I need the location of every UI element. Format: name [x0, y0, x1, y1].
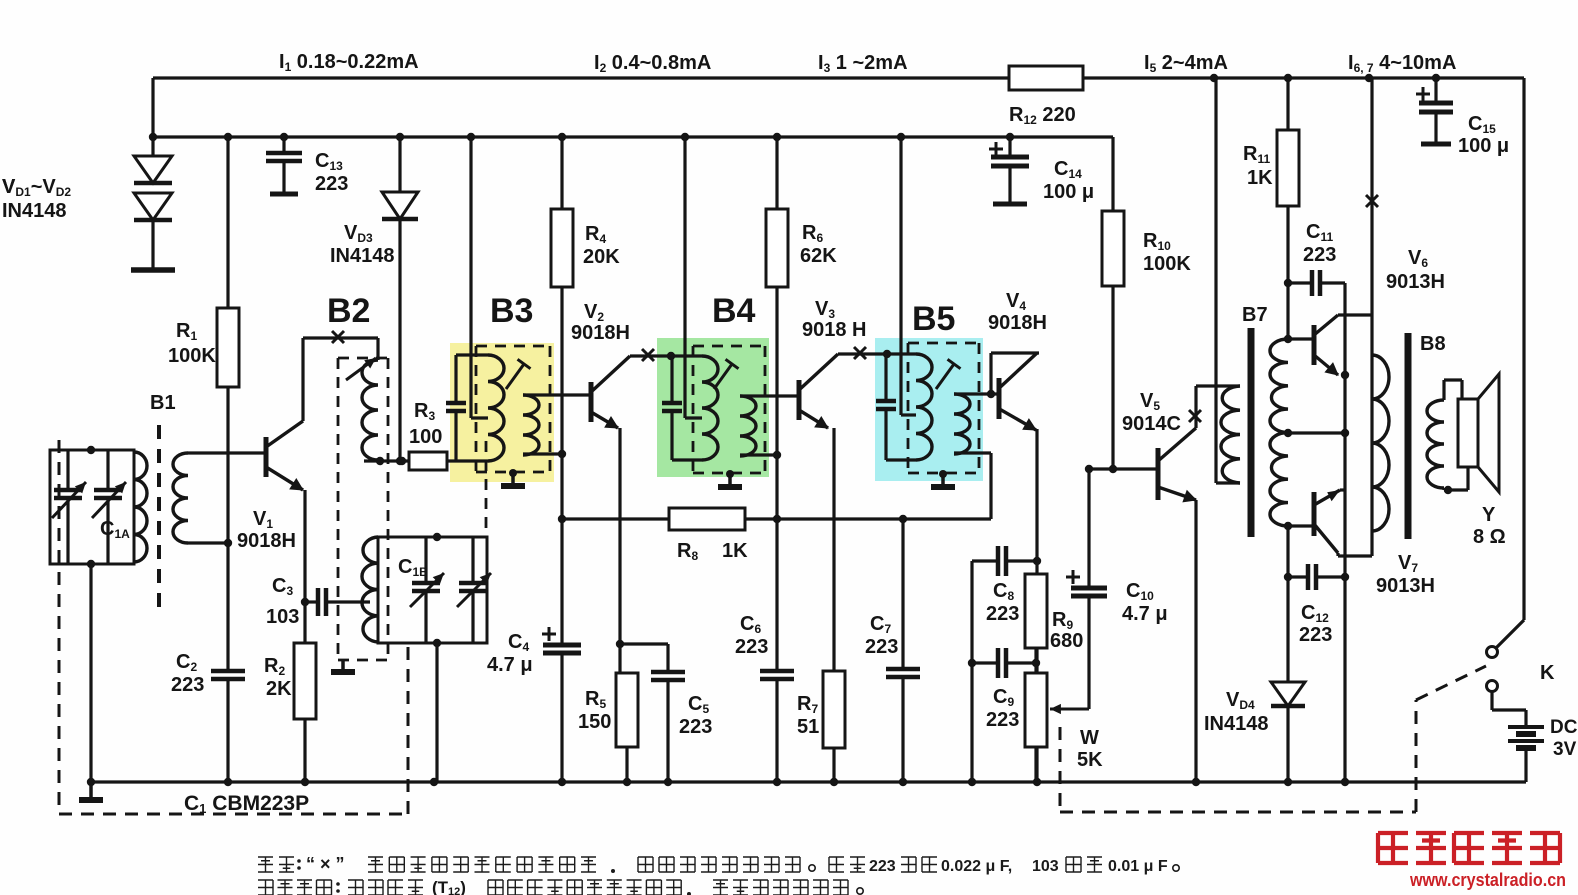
- svg-text:9018 H: 9018 H: [802, 319, 867, 341]
- svg-text:“ × ”: “ × ”: [306, 854, 345, 874]
- svg-text:4.7 μ: 4.7 μ: [1122, 603, 1168, 625]
- svg-text:B1: B1: [150, 392, 176, 414]
- svg-text:R12 220: R12 220: [1009, 104, 1076, 127]
- svg-text:680: 680: [1050, 630, 1083, 652]
- svg-text:223: 223: [986, 603, 1019, 625]
- svg-text:8 Ω: 8 Ω: [1473, 526, 1506, 548]
- svg-text:B3: B3: [490, 292, 533, 330]
- svg-text:0.022 μ F,: 0.022 μ F,: [941, 858, 1012, 875]
- svg-text:223: 223: [679, 716, 712, 738]
- svg-text:IN4148: IN4148: [330, 245, 395, 267]
- svg-text:I5 2~4mA: I5 2~4mA: [1144, 52, 1228, 75]
- svg-text:223: 223: [735, 636, 768, 658]
- svg-text:9018H: 9018H: [237, 530, 296, 552]
- svg-text:100 μ: 100 μ: [1458, 135, 1509, 157]
- svg-text:4.7 μ: 4.7 μ: [487, 654, 533, 676]
- svg-text:9013H: 9013H: [1376, 575, 1435, 597]
- svg-text:62K: 62K: [800, 245, 837, 267]
- svg-text:9018H: 9018H: [571, 322, 630, 344]
- svg-text:223: 223: [1303, 244, 1336, 266]
- svg-text:9013H: 9013H: [1386, 271, 1445, 293]
- svg-text:5K: 5K: [1077, 749, 1103, 771]
- svg-text:223: 223: [869, 858, 896, 875]
- svg-text:B4: B4: [712, 292, 756, 330]
- svg-text:9018H: 9018H: [988, 312, 1047, 334]
- svg-text:51: 51: [797, 716, 819, 738]
- svg-text:100 μ: 100 μ: [1043, 181, 1094, 203]
- svg-text:100: 100: [409, 426, 442, 448]
- svg-text:223: 223: [865, 636, 898, 658]
- svg-text:K: K: [1540, 662, 1555, 684]
- svg-text:223: 223: [1299, 624, 1332, 646]
- svg-text:103: 103: [266, 606, 299, 628]
- svg-text:2K: 2K: [266, 678, 292, 700]
- svg-text:150: 150: [578, 711, 611, 733]
- svg-text:IN4148: IN4148: [1204, 713, 1269, 735]
- svg-text:1K: 1K: [722, 540, 748, 562]
- svg-text:103: 103: [1032, 858, 1059, 875]
- svg-text:223: 223: [986, 709, 1019, 731]
- svg-text:IN4148: IN4148: [2, 200, 67, 222]
- svg-text:www.crystalradio.cn: www.crystalradio.cn: [1409, 870, 1566, 890]
- svg-text:B7: B7: [1242, 304, 1268, 326]
- svg-text:100K: 100K: [1143, 253, 1191, 275]
- svg-text:0.01 μ F: 0.01 μ F: [1108, 858, 1168, 875]
- svg-text:20K: 20K: [583, 246, 620, 268]
- svg-text:DC: DC: [1550, 717, 1578, 738]
- svg-text:I2 0.4~0.8mA: I2 0.4~0.8mA: [594, 52, 711, 75]
- svg-text:100K: 100K: [168, 345, 216, 367]
- svg-text:W: W: [1080, 727, 1099, 749]
- svg-text:Y: Y: [1482, 504, 1496, 526]
- svg-text:I3 1 ~2mA: I3 1 ~2mA: [818, 52, 908, 75]
- svg-text:B5: B5: [912, 300, 955, 338]
- svg-text:I1 0.18~0.22mA: I1 0.18~0.22mA: [279, 51, 419, 74]
- svg-text:9014C: 9014C: [1122, 413, 1181, 435]
- svg-text:223: 223: [315, 173, 348, 195]
- svg-text:B2: B2: [327, 292, 370, 330]
- svg-text:3V: 3V: [1553, 739, 1577, 760]
- svg-text:1K: 1K: [1247, 167, 1273, 189]
- svg-text:223: 223: [171, 674, 204, 696]
- svg-text:B8: B8: [1420, 333, 1446, 355]
